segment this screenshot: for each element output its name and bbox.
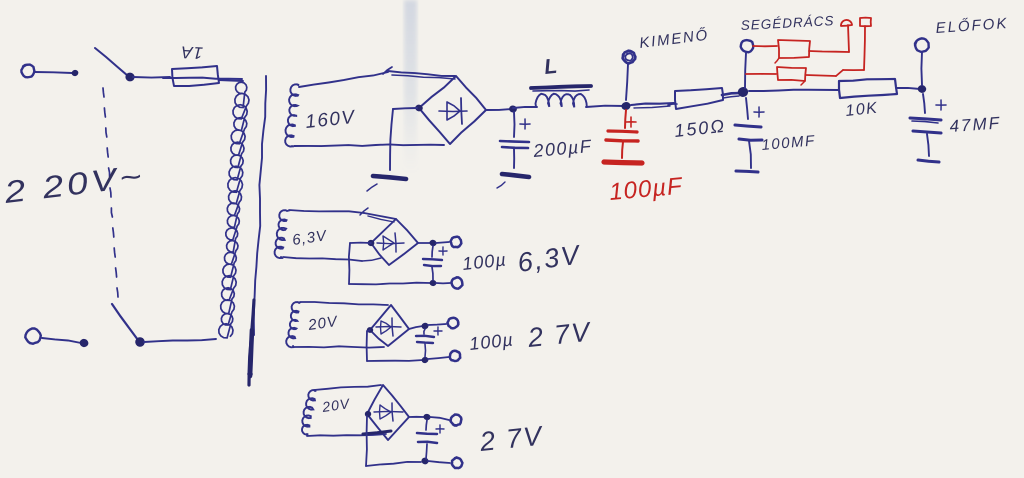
wire D2 minus: [349, 243, 430, 285]
wire to term 27b bottom: [428, 461, 450, 463]
label 27V big A: [525, 316, 593, 353]
ground G1: [367, 176, 406, 191]
wire 10K to J4: [896, 88, 920, 89]
wire upper input: [35, 69, 79, 77]
transformer core: [247, 76, 266, 385]
mains terminal lower: [25, 329, 41, 344]
terminal 27Vb top: [451, 415, 462, 426]
winding 20V b: [302, 390, 316, 435]
capacitor 100u A: [423, 246, 447, 280]
label 100u A: [461, 249, 507, 274]
wire to term 27a bottom: [428, 357, 449, 359]
wire 160V top: [299, 67, 455, 87]
red capacitor 100uF: [604, 110, 642, 163]
terminal 6.3V top: [451, 237, 462, 248]
ground G2: [497, 174, 529, 188]
label SEGEDRACS: [740, 13, 834, 33]
bridge D1: [415, 76, 486, 144]
junction J3: [737, 86, 750, 98]
junction J7t: [423, 413, 431, 421]
bridge D2: [367, 219, 418, 265]
primary winding: [219, 82, 249, 338]
switch link dashed: [103, 88, 118, 297]
junction J6t: [421, 322, 429, 330]
capacitor 200uF: [500, 112, 530, 168]
capacitor 100u B: [416, 327, 442, 357]
fuse label 1A: [180, 42, 204, 62]
label red 100uF: [608, 173, 684, 206]
wire 6.3V bottom: [283, 257, 381, 261]
wire D4 plus: [409, 416, 424, 418]
junction J1: [508, 105, 517, 113]
diode symbol D1: [439, 98, 467, 124]
terminal ELOFOK: [915, 38, 929, 85]
terminal 6.3V bottom: [452, 277, 463, 288]
wire D3 plus: [409, 326, 423, 329]
terminal SEGEDRACS: [741, 40, 754, 88]
red wire B2: [806, 26, 865, 76]
label KIMENO: [638, 27, 710, 52]
red resistor B: [777, 67, 806, 85]
terminal 27Vb bottom: [452, 458, 463, 469]
label 47MF: [949, 113, 1002, 136]
label ELOFOK: [935, 15, 1009, 37]
svg-text:10K: 10K: [845, 100, 880, 120]
red cap symbol A: [841, 20, 852, 26]
capacitor 47MF: [910, 94, 946, 162]
wire to term 27a top: [428, 324, 446, 325]
wire to term 6.3 top: [436, 242, 449, 243]
terminal 27Va bottom: [450, 351, 460, 361]
wire 6.3V top: [289, 208, 396, 222]
bridge D4: [364, 385, 409, 440]
junction J5b: [429, 280, 436, 287]
capacitor 100u C: [417, 420, 444, 459]
wire to fuse: [133, 76, 170, 79]
label 200uF: [532, 136, 593, 161]
wire lower input: [42, 338, 89, 348]
resistor 10K: [839, 79, 897, 98]
winding 160V: [285, 84, 299, 146]
label 20V b: [320, 395, 352, 415]
wire 20Vb top: [314, 385, 381, 390]
winding 6.3V: [275, 210, 288, 258]
resistor 150: [668, 88, 723, 109]
wire lower to primary: [144, 339, 216, 342]
wire J3 to 10K: [749, 90, 838, 91]
wire J1 to L: [513, 107, 537, 108]
terminal KIMENO: [623, 51, 636, 100]
wire to term 6.3 bottom: [436, 282, 450, 284]
winding 20V a: [286, 302, 299, 347]
label L: [543, 55, 559, 79]
diode symbol D2: [377, 233, 404, 252]
junction J5t: [429, 239, 438, 247]
label 27V big B: [477, 420, 545, 457]
red wire A2: [809, 25, 849, 52]
junction J2: [621, 101, 632, 111]
junction J4: [917, 84, 927, 93]
red cap symbol B: [860, 18, 871, 27]
terminal 27Va top: [448, 318, 459, 329]
svg-text:1A: 1A: [180, 42, 204, 62]
label 10K: [845, 100, 880, 120]
svg-text:47MF: 47MF: [949, 113, 1002, 136]
label 20V a: [306, 313, 340, 334]
wire 20Vb bottom: [307, 431, 391, 436]
wire L to J2: [586, 106, 624, 107]
label 150ohm: [673, 116, 727, 141]
wire J2 to R150: [631, 103, 674, 108]
wire fuse to primary: [219, 80, 243, 81]
wire D3 minus: [367, 330, 423, 361]
mains terminal upper: [21, 65, 34, 78]
wire bridge plus: [486, 109, 512, 110]
label 160V: [304, 107, 357, 133]
diode symbol D3: [376, 318, 401, 336]
junction J7b: [421, 457, 430, 466]
wire 160V bottom: [294, 144, 444, 146]
red resistor A: [775, 40, 810, 63]
inductor L core: [531, 86, 591, 91]
bridge D3: [367, 305, 409, 346]
red wire B1: [746, 73, 776, 75]
label 100MF: [761, 132, 816, 154]
wire D4 minus: [366, 416, 421, 466]
capacitor 100MF: [735, 98, 764, 172]
wire D2 plus: [418, 242, 431, 244]
switch S upper pole: [95, 48, 135, 82]
wire 20Va bottom: [294, 346, 384, 347]
inductor L winding: [536, 94, 587, 108]
label 100u B: [468, 329, 514, 354]
wire to term 27b top: [430, 417, 449, 420]
wire 20Va top: [300, 302, 388, 305]
fuse B1 body: [163, 66, 242, 86]
label 6.3V small: [291, 227, 329, 249]
wire bridge minus: [390, 108, 417, 170]
label 6.3V big: [516, 239, 584, 278]
ink smudge: [404, 0, 417, 172]
wire R150 to J3: [722, 93, 741, 98]
diode symbol D4: [374, 403, 403, 421]
label 220V: [1, 158, 146, 210]
switch S lower pole: [112, 304, 146, 348]
junction J6b: [421, 356, 429, 364]
svg-text:L: L: [543, 55, 559, 79]
red wire A1: [753, 45, 777, 47]
